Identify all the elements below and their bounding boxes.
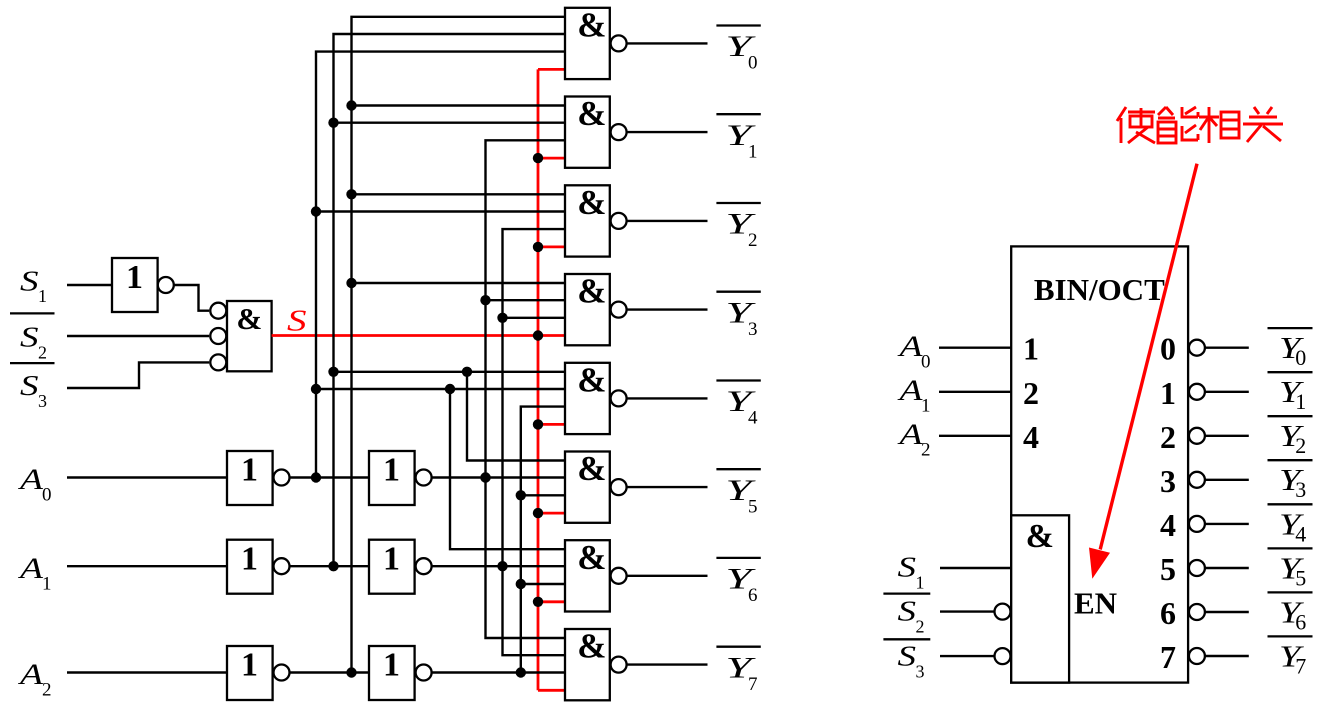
svg-text:&: & (577, 360, 606, 399)
enable NAND gate U2 input bubble 1 (210, 303, 226, 319)
inverter U1 (S1 inverter) box (112, 258, 158, 312)
red wire S top branch to gate G0 input 4 (538, 68, 565, 71)
svg-text:1: 1 (383, 540, 400, 577)
wire A1 true to gate column (432, 565, 565, 567)
junction dot A2 G6 (516, 579, 526, 589)
svg-text:1: 1 (241, 647, 258, 684)
svg-text:4: 4 (1295, 521, 1306, 546)
svg-text:S: S (898, 596, 917, 628)
wire A2 input to inverter (67, 671, 227, 673)
svg-text:0: 0 (921, 352, 931, 373)
svg-text:0: 0 (748, 53, 758, 74)
junction dot A1' G1 (328, 118, 338, 128)
inverter A2 second stage box (369, 646, 415, 700)
wire gate G3 output to Y3 (627, 308, 708, 310)
wire S2 to IC enable bubble (940, 610, 995, 612)
junction dot A2' G1 (346, 100, 356, 110)
NAND gate G3 box (565, 274, 610, 345)
wire gate G2 output to Y2 (627, 220, 708, 222)
junction dot S G6 (533, 597, 543, 607)
IC output bubble pin 7 (1189, 648, 1205, 664)
junction dot A2' G3 (346, 278, 356, 288)
wire IC pin 6 to Y6 (1205, 611, 1249, 613)
red wire S: enable gate output to NAND gate G3 input 4 (272, 334, 565, 337)
overline of S2 (10, 312, 55, 314)
enable NAND gate U2 input bubble 3 (210, 354, 226, 370)
IC overline of S2 (883, 592, 930, 594)
svg-text:3: 3 (38, 391, 47, 411)
red wire S branch to gate G6 input 4 (538, 600, 565, 603)
svg-text:1: 1 (383, 647, 400, 684)
junction dot S G4 (533, 419, 543, 429)
junction dot A0' G4 (311, 384, 321, 394)
wire IC pin 5 to Y5 (1205, 567, 1249, 569)
svg-text:&: & (577, 183, 606, 222)
red annotation arrow to EN (1100, 164, 1197, 550)
junction dot A2' at row A2 (346, 667, 356, 677)
wire bus A1 vertical (x=502.5) (503, 229, 566, 655)
red wire S branch to gate G1 input 4 (538, 157, 565, 160)
junction dot A0' G2 (311, 206, 321, 216)
wire IC pin 0 to Y0 (1205, 347, 1249, 349)
wire A1' branch down to gate G5 input 1 (467, 372, 565, 461)
wire IC pin 2 to Y2 (1205, 435, 1249, 437)
inverter A1 first stage box (227, 540, 273, 594)
wire S3 to IC enable bubble (940, 655, 995, 657)
wire A0 true to gate column (432, 476, 565, 478)
annotation text 使能相关 (enable related), hand-drawn strokes (1117, 107, 1126, 121)
wire A0 to gate G3 input 2 (486, 299, 566, 301)
svg-text:BIN/OCT: BIN/OCT (1034, 272, 1165, 307)
red wire S vertical bus (537, 69, 540, 690)
wire A2 true to gate column (432, 671, 565, 673)
NAND gate G3 output bubble (611, 302, 627, 318)
junction dot A2 G5 (516, 490, 526, 500)
svg-text:A: A (17, 658, 43, 691)
svg-text:3: 3 (748, 319, 758, 340)
svg-text:1: 1 (241, 452, 258, 489)
NAND gate G7 box (565, 629, 610, 700)
wire IC pin 7 to Y7 (1205, 655, 1249, 657)
inverter U1 output bubble (158, 277, 174, 293)
overline of output Y4 (716, 379, 760, 381)
wire A1' between inverters (290, 565, 369, 567)
wire gate G0 output to Y0 (627, 42, 708, 44)
junction dot S G3 (red bus crossing) (533, 330, 543, 340)
svg-text:1: 1 (748, 141, 758, 162)
svg-text:A: A (897, 374, 923, 407)
overline of output Y1 (716, 113, 760, 115)
inverter A0 first stage box (227, 451, 273, 505)
overline of output Y3 (716, 291, 760, 293)
NAND gate G1 box (565, 97, 610, 168)
svg-text:S: S (20, 322, 39, 354)
NAND gate G6 box (565, 540, 610, 611)
wire bus A0' vertical (x=316) (316, 52, 565, 478)
svg-text:2: 2 (921, 440, 931, 461)
IC output bubble pin 4 (1189, 516, 1205, 532)
svg-text:2: 2 (916, 617, 925, 637)
svg-text:&: & (577, 538, 606, 577)
wire A1' to gate G4 input 1 (334, 371, 566, 373)
junction dot A2' G2 (346, 189, 356, 199)
wire A1 to gate G3 input 3 (503, 317, 566, 319)
svg-text:1: 1 (1023, 331, 1039, 367)
svg-text:1: 1 (916, 573, 925, 593)
svg-text:1: 1 (383, 452, 400, 489)
wire A2' to gate G3 input 1 (352, 282, 566, 284)
overline of output Y7 (716, 646, 760, 648)
svg-text:0: 0 (1295, 345, 1306, 370)
inverter A0 second stage output bubble (416, 470, 432, 486)
NAND gate G4 output bubble (611, 390, 627, 406)
NAND gate G2 output bubble (611, 213, 627, 229)
wire U1 output to enable gate input 1 (174, 285, 209, 311)
junction dot A0 row at gate column (480, 472, 490, 482)
IC output bubble pin 1 (1189, 384, 1205, 400)
svg-text:2: 2 (748, 230, 758, 251)
wire A0 to IC pin 1 (939, 347, 1011, 349)
svg-text:6: 6 (1160, 595, 1176, 631)
wire A2 to IC pin 4 (939, 435, 1011, 437)
svg-text:4: 4 (1160, 507, 1176, 543)
red wire S branch to gate G5 input 4 (538, 512, 565, 515)
svg-text:&: & (577, 627, 606, 666)
svg-text:1: 1 (921, 396, 931, 417)
wire A0' to gate G4 input 2 (316, 388, 565, 390)
svg-text:&: & (577, 449, 606, 488)
svg-text:A: A (17, 552, 43, 585)
inverter A1 first stage output bubble (274, 558, 290, 574)
svg-text:A: A (897, 330, 923, 363)
NAND gate G4 box (565, 363, 610, 434)
wire bus A0 vertical (x=485.5) (486, 140, 566, 638)
junction dot A1 G3 (497, 313, 507, 323)
IC output bubble pin 2 (1189, 428, 1205, 444)
svg-text:2: 2 (1295, 433, 1306, 458)
wire IC pin 4 to Y4 (1205, 523, 1249, 525)
overline of output Y2 (716, 202, 760, 204)
wire A1 to IC pin 2 (939, 391, 1011, 393)
NAND gate G5 output bubble (611, 479, 627, 495)
svg-text:0: 0 (1160, 331, 1176, 367)
enable NAND gate U2 input bubble 2 (210, 328, 226, 344)
svg-text:2: 2 (42, 680, 52, 701)
wire A1' to gate G1 input 2 (334, 121, 566, 123)
NAND gate G2 box (565, 185, 610, 256)
svg-text:&: & (577, 272, 606, 311)
svg-text:&: & (236, 301, 262, 336)
IC output bubble pin 0 (1189, 340, 1205, 356)
wire A0' between inverters (290, 476, 369, 478)
wire S3 to enable gate input 3 (67, 362, 209, 388)
svg-text:4: 4 (1023, 419, 1039, 455)
svg-text:0: 0 (42, 485, 52, 506)
inverter A2 first stage box (227, 646, 273, 700)
svg-text:5: 5 (1295, 565, 1306, 590)
overline of IC output Y7 (1268, 635, 1313, 637)
overline of IC output Y1 (1268, 371, 1313, 373)
svg-text:7: 7 (748, 674, 758, 695)
overline of output Y5 (716, 468, 760, 470)
svg-text:A: A (897, 418, 923, 451)
junction dot A1' at row A1 (328, 561, 338, 571)
overline of S3 (10, 362, 55, 364)
red wire S branch to gate G4 input 4 (538, 423, 565, 426)
wire A2 to gate G5 input 3 (521, 494, 565, 496)
overline of IC output Y2 (1268, 415, 1313, 417)
wire A2' to gate G1 input 1 (352, 104, 566, 106)
wire gate G6 output to Y6 (627, 575, 708, 577)
junction dot A0' branch (445, 384, 455, 394)
NAND gate G7 output bubble (611, 657, 627, 673)
junction dot S G5 (533, 508, 543, 518)
wire S1 to inverter U1 (67, 284, 112, 286)
inverter A0 second stage box (369, 451, 415, 505)
svg-text:A: A (17, 463, 43, 496)
svg-text:2: 2 (38, 342, 47, 362)
IC overline of S3 (883, 638, 930, 640)
IC enable block (&amp; section) (1011, 515, 1069, 682)
svg-text:S: S (20, 265, 39, 297)
wire IC pin 3 to Y3 (1205, 479, 1249, 481)
IC S2 input bubble (995, 604, 1011, 620)
IC output bubble pin 6 (1189, 604, 1205, 620)
red wire S branch to gate G2 input 4 (538, 245, 565, 248)
wire A1 input to inverter (67, 565, 227, 567)
svg-text:5: 5 (1160, 551, 1176, 587)
overline of IC output Y0 (1268, 327, 1313, 329)
IC S3 input bubble (995, 648, 1011, 664)
overline of IC output Y6 (1268, 591, 1313, 593)
svg-text:1: 1 (1160, 375, 1176, 411)
wire bus A1' vertical (x=333.5) (334, 34, 566, 566)
svg-text:5: 5 (748, 496, 758, 517)
svg-text:1: 1 (38, 286, 47, 306)
svg-text:1: 1 (42, 573, 52, 594)
wire bus A2' vertical (x=351.5) (352, 17, 566, 673)
svg-text:7: 7 (1295, 653, 1306, 678)
junction dot A0' at row A0 (311, 472, 321, 482)
junction dot A1' G4 (328, 367, 338, 377)
wire A0' branch down to gate G6 input 1 (450, 389, 565, 549)
wire A2' between inverters (290, 671, 369, 673)
inverter A1 second stage output bubble (416, 558, 432, 574)
svg-text:S: S (898, 552, 917, 584)
NAND gate G0 box (565, 8, 610, 79)
svg-text:1: 1 (241, 540, 258, 577)
NAND gate G0 output bubble (611, 35, 627, 51)
junction dot S G2 (533, 242, 543, 252)
junction dot A2 at row A2 (516, 667, 526, 677)
wire IC pin 1 to Y1 (1205, 391, 1249, 393)
svg-text:3: 3 (1160, 463, 1176, 499)
NAND gate G1 output bubble (611, 124, 627, 140)
inverter A0 first stage output bubble (274, 470, 290, 486)
svg-text:&: & (577, 94, 606, 133)
svg-text:1: 1 (126, 259, 143, 296)
overline of output Y0 (716, 24, 760, 26)
inverter A1 second stage box (369, 540, 415, 594)
wire gate G7 output to Y7 (627, 663, 708, 665)
svg-text:EN: EN (1074, 585, 1117, 620)
IC output bubble pin 3 (1189, 472, 1205, 488)
svg-text:6: 6 (748, 585, 758, 606)
svg-text:S: S (20, 370, 39, 402)
junction dot A1' branch (462, 367, 472, 377)
wire bus A2 vertical (x=520.8) (521, 407, 565, 673)
overline of IC output Y4 (1268, 503, 1313, 505)
svg-text:&: & (577, 5, 606, 44)
svg-text:S: S (898, 641, 917, 673)
svg-text:6: 6 (1295, 609, 1306, 634)
wire S2 to enable gate input 2 (67, 335, 209, 337)
svg-text:2: 2 (1160, 419, 1176, 455)
NAND gate G6 output bubble (611, 568, 627, 584)
overline of IC output Y5 (1268, 547, 1313, 549)
wire gate G1 output to Y1 (627, 131, 708, 133)
svg-text:S: S (287, 302, 307, 337)
svg-text:&: & (1026, 518, 1054, 555)
enable NAND gate U2 box (227, 301, 272, 371)
inverter A2 first stage output bubble (274, 665, 290, 681)
inverter A2 second stage output bubble (416, 665, 432, 681)
IC output bubble pin 5 (1189, 560, 1205, 576)
svg-text:3: 3 (1295, 477, 1306, 502)
wire gate G4 output to Y4 (627, 397, 708, 399)
wire A0' to gate G2 input 2 (316, 210, 565, 212)
NAND gate G5 box (565, 452, 610, 523)
wire gate G5 output to Y5 (627, 486, 708, 488)
wire A2' to gate G2 input 1 (352, 193, 566, 195)
wire A0 input to inverter (67, 476, 227, 478)
junction dot A0 G3 (480, 295, 490, 305)
junction dot S G1 (533, 153, 543, 163)
svg-text:2: 2 (1023, 375, 1039, 411)
junction dot A0 at row A0 (480, 472, 490, 482)
IC U3 74HC138 body (1011, 246, 1188, 682)
svg-text:3: 3 (916, 662, 925, 682)
svg-text:7: 7 (1160, 639, 1176, 675)
red wire S bottom branch to gate G7 input 4 (538, 689, 565, 692)
svg-text:4: 4 (748, 408, 758, 429)
junction dot A1 at row A1 (497, 561, 507, 571)
overline of output Y6 (716, 557, 760, 559)
svg-text:1: 1 (1295, 389, 1306, 414)
wire A2 to gate G6 input 3 (521, 583, 565, 585)
overline of IC output Y3 (1268, 459, 1313, 461)
wire S1 to IC enable (940, 567, 1011, 569)
